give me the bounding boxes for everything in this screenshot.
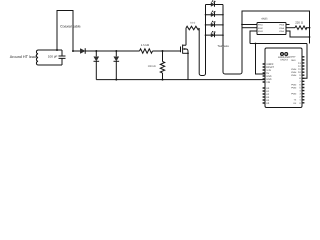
transistor Q1 MOSFET <box>180 47 182 53</box>
svg-text:100 kΩ: 100 kΩ <box>148 65 156 68</box>
coaxial cable loop <box>57 11 73 52</box>
wire R1 to gate node <box>153 50 181 52</box>
node tank-top junction <box>56 49 58 51</box>
svg-text:220 Ω: 220 Ω <box>295 20 304 24</box>
wire 5V run <box>250 43 307 45</box>
svg-text:PWM: PWM <box>291 93 296 96</box>
node clamp 1 <box>95 50 97 52</box>
svg-text:RESET: RESET <box>266 66 274 69</box>
svg-text:IOREF: IOREF <box>266 63 274 66</box>
wire main signal <box>73 50 80 52</box>
svg-text:1.5 kΩ: 1.5 kΩ <box>141 43 149 47</box>
twin wire loop 1 (lamp return) <box>199 5 205 76</box>
svg-text:100 pF: 100 pF <box>48 55 58 59</box>
svg-text:10 Ω: 10 Ω <box>190 22 195 25</box>
Arduino logo <box>281 53 284 56</box>
svg-text:Twin wire: Twin wire <box>217 45 229 48</box>
LED ladder junction dots <box>205 14 207 16</box>
wire pin2 to twin wire loop2 <box>242 27 257 29</box>
LED row wires <box>206 4 224 6</box>
wire after D1 <box>86 50 140 52</box>
Arduino left pin labels <box>266 63 274 105</box>
svg-text:UNO-3: UNO-3 <box>280 59 288 62</box>
inductor L1 pickup coil <box>36 50 38 65</box>
LED D7 <box>211 31 215 37</box>
wire down right side to pin 8 <box>309 28 311 44</box>
LED D5 <box>211 11 215 17</box>
svg-text:PWM: PWM <box>291 68 296 71</box>
LED D4 <box>211 1 215 7</box>
node clamp 2 <box>115 50 117 52</box>
wire bottom of tank <box>38 64 62 66</box>
wire pin1 <box>242 24 257 26</box>
Q1 drain riser <box>185 28 187 45</box>
ground rail <box>96 79 265 81</box>
wire pin3 down <box>250 31 257 44</box>
svg-text:GND: GND <box>266 75 271 78</box>
Arduino right pin stubs <box>302 57 304 103</box>
svg-text:PWM: PWM <box>291 86 296 89</box>
Arduino right pin labels <box>298 62 301 105</box>
svg-text:PWM: PWM <box>291 74 296 77</box>
diode D3 clamp to rail <box>115 51 117 56</box>
svg-text:GND: GND <box>266 78 271 81</box>
diode D1 series <box>80 49 85 54</box>
PWM marks <box>290 56 297 105</box>
svg-text:VIN: VIN <box>266 81 270 84</box>
Arduino U2 board <box>265 48 302 108</box>
Arduino left pin stubs <box>263 64 265 103</box>
node coax-right junction <box>72 50 74 52</box>
svg-text:PWM: PWM <box>291 83 296 86</box>
LED ladder left rail is loop1 right leg; right rail <box>223 5 242 75</box>
svg-text:3.3V: 3.3V <box>266 69 271 72</box>
svg-text:PWM: PWM <box>291 71 296 74</box>
svg-text:4N35: 4N35 <box>261 18 268 21</box>
wire pin4 to Arduino input <box>286 31 310 37</box>
optocoupler pin6 stub <box>286 24 290 26</box>
svg-text:AREF: AREF <box>290 56 296 59</box>
capacitor C1 100 pF <box>61 50 63 56</box>
wire top of tank <box>38 49 62 51</box>
svg-text:Coaxial cable: Coaxial cable <box>60 25 80 29</box>
node gate junction <box>162 50 164 52</box>
Q1 source drop <box>187 53 189 79</box>
diode D2 clamp to rail <box>95 51 97 56</box>
top supply loop <box>242 11 310 28</box>
svg-text:Around HT lead: Around HT lead <box>10 55 36 59</box>
svg-text:GND: GND <box>291 59 296 62</box>
LED D6 <box>211 21 215 27</box>
svg-text:5V: 5V <box>266 72 269 75</box>
